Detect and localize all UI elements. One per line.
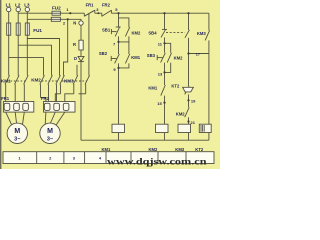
contact FR1 (NC thermal, on wire 1): [84, 10, 95, 16]
wire KT2 coil to rail: [208, 133, 210, 141]
contact KT2 (delayed): [183, 86, 194, 94]
wire 1 segment b: [95, 12, 102, 14]
wire node9 to KM1 coil: [118, 63, 120, 124]
node 19 dot: [187, 99, 189, 101]
contactor KM1 main contacts: [5, 75, 28, 101]
svg-text:KM3: KM3: [64, 78, 74, 83]
parallel branch KM2 aux (around SB3): [165, 43, 172, 72]
wire L1 vertical: [8, 12, 10, 23]
linkage dashed SB4: [166, 32, 185, 34]
wire SB4 to node 11: [164, 37, 166, 52]
terminal L3: [25, 7, 29, 11]
node 5 dot: [117, 12, 119, 14]
fuse FU1 pole3: [25, 23, 29, 35]
wire SB1 to node 7: [118, 36, 120, 54]
control branch A: vertical from wire1: [118, 13, 120, 27]
node 15 dot: [163, 102, 165, 104]
svg-text:L1: L1: [6, 3, 12, 8]
wire node13: [164, 63, 166, 85]
pushbutton SB1 (NC stop): [111, 27, 120, 36]
parallel branch KM1 aux contact (around SB2): [119, 42, 130, 68]
wire KM3 pole2 stub: [76, 65, 78, 76]
coil KM2: [156, 124, 169, 132]
contactor KM3 main contacts: [55, 75, 89, 101]
thermal relay FR2 heater box: [44, 102, 76, 113]
pushbutton SB3 (NO start): [157, 53, 165, 63]
node 11 dot: [163, 42, 165, 44]
wire tap L2 to FU2 fuse a: [18, 12, 52, 14]
wire KM1 coil to rail: [118, 133, 120, 141]
wire D to bottom rail: [80, 62, 82, 141]
svg-text:KM3: KM3: [197, 31, 207, 36]
wire phase2 below fuse: [17, 35, 19, 75]
svg-text:FU1: FU1: [33, 28, 42, 33]
svg-text:KM2: KM2: [132, 30, 142, 35]
wire R to D: [80, 50, 82, 56]
wire 2 from FU2b to N terminal: [60, 19, 81, 21]
coil KM3: [178, 124, 191, 132]
svg-text:KM1: KM1: [1, 78, 11, 83]
node 13 dot: [163, 71, 165, 73]
svg-text:KM2: KM2: [174, 55, 184, 60]
fuse FU2a: [52, 11, 60, 15]
svg-text:KM1: KM1: [148, 85, 158, 90]
contactor KM2 main contacts: [40, 75, 61, 101]
coil KM1: [112, 124, 125, 132]
motor M1: [7, 123, 27, 143]
node 7 dot: [117, 41, 119, 43]
svg-text:KM2: KM2: [31, 78, 41, 83]
svg-text:SB4: SB4: [148, 31, 157, 36]
wire node15 to KM2 coil: [164, 96, 166, 125]
svg-text:13: 13: [158, 71, 163, 76]
node 3 dot: [97, 12, 99, 14]
svg-text:FR1: FR1: [86, 3, 95, 8]
wire tap L3 to FU2 fuse b: [27, 18, 51, 20]
junction dots: [67, 12, 190, 123]
svg-text:KM2: KM2: [176, 111, 186, 116]
svg-text:N: N: [73, 21, 76, 26]
contact SB4-NO (linked): [185, 30, 190, 38]
svg-text:FR2: FR2: [41, 96, 50, 101]
svg-text:L3: L3: [24, 3, 30, 8]
labels: [6, 3, 62, 33]
motor M2: [40, 123, 60, 143]
svg-text:3~: 3~: [47, 137, 53, 143]
wire FR2 to motor M2: [45, 112, 65, 125]
control branch B: vertical from wire1: [164, 13, 166, 30]
pushbutton SB2 (NO start): [111, 54, 119, 63]
pushbutton SB4 (NC): [161, 29, 167, 37]
wire distribution H2 (phase2 tap): [18, 45, 51, 75]
fuse FU1 pole2: [16, 23, 20, 35]
wire FR1 to motor M1: [6, 112, 25, 124]
svg-text:KM1: KM1: [131, 55, 141, 60]
svg-text:SB1: SB1: [102, 27, 111, 32]
wire L2 vertical: [17, 12, 19, 23]
wire 2 drop (N rail vertical): [64, 19, 68, 75]
parallel branch KM2 aux contact (around SB1): [119, 18, 130, 42]
fuse FU1 pole1: [7, 23, 11, 35]
svg-text:15: 15: [157, 101, 162, 106]
wire phase1 below fuse: [8, 35, 10, 75]
svg-text:21: 21: [191, 120, 196, 125]
motor M1 text: [14, 128, 53, 135]
resistor R: [79, 40, 83, 50]
node 9 dot: [117, 67, 119, 69]
control branch D: right column: [208, 13, 210, 30]
page left border: [0, 0, 2, 169]
wire 1 segment a: [60, 12, 84, 14]
svg-text:FR1: FR1: [1, 96, 10, 101]
motor M1/M2 3~ text: [14, 137, 53, 143]
terminal N: [79, 21, 83, 25]
svg-text:M: M: [14, 128, 20, 135]
wire node 19: [188, 94, 190, 107]
svg-text:D: D: [74, 56, 77, 61]
terminal L1: [7, 7, 11, 11]
wire KM2 coil to rail: [164, 133, 166, 141]
svg-text:M: M: [47, 128, 53, 135]
wire N circle to resistor: [80, 25, 82, 40]
svg-text:FR2: FR2: [102, 3, 111, 8]
wire1 junction C dot: [187, 12, 189, 14]
wire phase3 below fuse: [26, 35, 28, 75]
wire1 junction B dot: [163, 12, 165, 14]
svg-text:www.dqjsw.com.cn: www.dqjsw.com.cn: [107, 156, 207, 167]
thermal relay FR1 heater box: [3, 102, 33, 113]
svg-text:L2: L2: [15, 3, 21, 8]
contact FR2 (NC thermal, on wire 1): [102, 10, 112, 16]
coil KT2 (time relay): [199, 124, 211, 132]
wire branch D down to KT2 coil: [208, 40, 210, 124]
wire bottom rail (N): [81, 139, 209, 141]
wire L3 vertical: [26, 12, 28, 23]
node 1 dot: [69, 12, 71, 14]
wire KM3 coil to rail: [188, 133, 190, 141]
wire distribution H3 (phase1 tap): [9, 58, 44, 76]
wire distribution H1 (phase3 tap): [27, 39, 59, 76]
contact KM2 aux (branch C): [185, 107, 190, 117]
contact KM3 aux (NO, top right): [205, 30, 210, 40]
wire 1 segment c: [111, 12, 208, 14]
svg-text:R: R: [73, 42, 76, 47]
node 2 dot: [67, 18, 69, 20]
fuse FU2b: [51, 17, 60, 21]
svg-text:KT2: KT2: [171, 84, 180, 89]
svg-text:SB2: SB2: [99, 51, 108, 56]
wire node 21 to KM3 coil: [188, 117, 190, 124]
svg-text:17: 17: [196, 51, 201, 56]
control branch C: vertical from wire1: [188, 13, 190, 30]
wire to node 17: [188, 38, 190, 87]
svg-text:19: 19: [191, 99, 196, 104]
terminal table: [3, 152, 214, 164]
svg-text:SB3: SB3: [147, 53, 156, 58]
wire KM3 pole3 drop from wire1: [88, 13, 90, 75]
node 21 dot: [187, 120, 189, 122]
diode D: [78, 56, 84, 61]
wire node17 crossbar: [189, 53, 209, 55]
terminal L2: [16, 7, 20, 11]
svg-text:FU2: FU2: [52, 6, 61, 11]
contact KM1 aux (NO, branch B): [161, 85, 166, 96]
svg-text:3~: 3~: [14, 137, 20, 143]
node 17 dot: [187, 52, 189, 54]
